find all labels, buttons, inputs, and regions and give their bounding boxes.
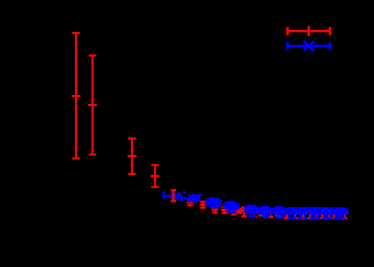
red point x=287	[284, 210, 291, 219]
red point x=224.5	[221, 207, 228, 213]
blue stray cap dash c	[199, 194, 202, 196]
red point x=203	[200, 202, 207, 208]
red point x=322	[319, 211, 326, 219]
blue point x=175.3	[164, 192, 181, 200]
blue point x=339.5	[336, 208, 342, 218]
blue point x=229	[224, 202, 234, 212]
red point x=190	[187, 199, 194, 205]
blue point x=336	[333, 208, 339, 218]
red point x=214.8	[211, 207, 218, 213]
red bar overlay at x=173.4 (drawn over blue)	[172, 190, 174, 201]
blue point x=211.3	[206, 198, 217, 207]
blue point x=233.7	[229, 202, 239, 212]
red point x=340	[337, 211, 344, 219]
red point x=234	[231, 209, 238, 215]
red point x=316	[313, 211, 320, 219]
blue point x=343	[340, 208, 348, 218]
blue point x=300	[297, 208, 303, 218]
legend: blue series sample	[288, 41, 331, 51]
blue point x=250	[245, 206, 254, 217]
red point x=270.5	[267, 210, 274, 218]
red point x=76	[72, 33, 81, 159]
red point x=261	[258, 210, 265, 216]
blue point x=330	[327, 208, 333, 218]
blue point x=305	[302, 208, 308, 218]
blue point x=315	[312, 208, 318, 219]
legend: red series sample	[288, 26, 331, 36]
red point x=303	[300, 210, 307, 218]
red point x=310	[307, 210, 314, 218]
blue point x=215.6	[210, 199, 221, 208]
red data series: vertical error bars with + markers	[72, 33, 348, 218]
red point x=295	[292, 210, 299, 219]
red point x=92.5	[88, 56, 97, 155]
blue point x=267	[262, 207, 271, 217]
red point x=244	[241, 208, 248, 217]
blue point x=263.5	[259, 207, 268, 217]
blue point x=327	[324, 208, 330, 218]
blue point x=289.5	[286, 208, 292, 218]
blue data series: xy error bars with X markers	[162, 192, 347, 218]
blue point x=294	[291, 208, 297, 218]
red point x=254	[251, 209, 258, 217]
red point x=239.5	[236, 209, 243, 213]
red point x=344.5	[341, 211, 348, 219]
blue stray cap dash b	[183, 191, 186, 193]
blue stray cap dash a	[162, 191, 165, 193]
red point x=334	[331, 211, 338, 219]
red point x=328	[325, 211, 332, 219]
blue point x=253.8	[249, 206, 258, 216]
red point x=173.4	[170, 190, 177, 201]
blue point x=281.3	[277, 208, 286, 218]
blue point x=311.5	[308, 208, 314, 219]
red point x=155	[151, 165, 160, 187]
blue point x=318	[315, 208, 321, 219]
blue point x=196.3	[192, 194, 200, 202]
blue point x=192	[182, 195, 196, 203]
red point x=132	[128, 139, 137, 175]
blue point x=278	[274, 207, 283, 218]
blue point x=324	[321, 208, 327, 218]
red point x=278	[275, 210, 282, 217]
